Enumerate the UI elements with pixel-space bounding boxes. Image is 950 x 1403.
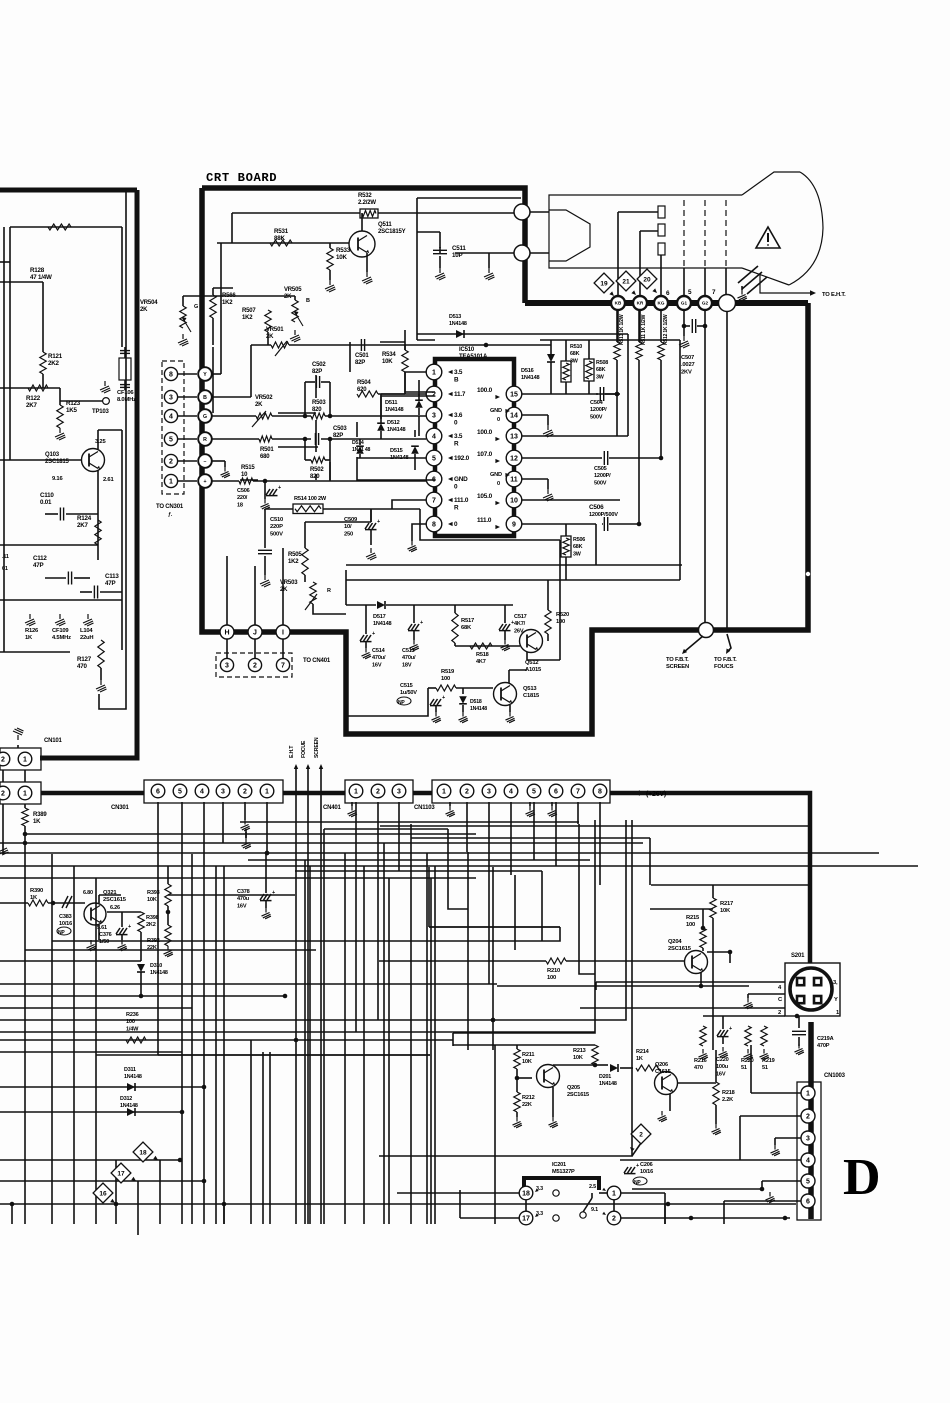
svg-text:Q205: Q205 (567, 1085, 580, 1091)
wire (0, 1031, 595, 1033)
wire (599, 802, 601, 885)
wire (304, 439, 306, 460)
svg-text:2K7: 2K7 (77, 522, 89, 529)
svg-text:D312: D312 (120, 1096, 132, 1102)
wire (0, 842, 643, 844)
tube pin G1 (677, 296, 691, 310)
node R (198, 432, 212, 446)
svg-text:7: 7 (432, 498, 436, 505)
svg-text:1/50: 1/50 (99, 939, 109, 945)
wire (348, 688, 428, 716)
ground (55, 614, 66, 626)
IC510 pin 15 (506, 386, 522, 402)
IC510 pin 14 (506, 407, 522, 423)
wire (525, 1200, 527, 1211)
transistor Q512 (520, 630, 543, 653)
ground (87, 940, 96, 951)
wire (295, 870, 542, 872)
svg-text:(+26V): (+26V) (646, 791, 666, 798)
resistor R390 (28, 900, 48, 906)
svg-text:R510: R510 (570, 344, 582, 350)
svg-text:2SC1815Y: 2SC1815Y (378, 229, 406, 235)
svg-text:10: 10 (510, 498, 518, 505)
svg-text:D310: D310 (150, 963, 162, 969)
wire (346, 604, 376, 606)
svg-text:1: 1 (169, 479, 173, 486)
wire (704, 326, 706, 627)
connector pin 1 (164, 474, 177, 487)
wire (579, 824, 595, 974)
wire (248, 859, 590, 861)
wire (616, 360, 618, 394)
svg-text:3: 3 (225, 663, 229, 670)
diode D518 (459, 696, 467, 704)
svg-text:R217: R217 (720, 901, 733, 907)
wire (73, 866, 75, 1224)
wire (555, 802, 557, 866)
svg-text:Q204: Q204 (668, 939, 682, 945)
wire (497, 985, 701, 987)
wire (168, 894, 295, 896)
svg-text:1200P/: 1200P/ (590, 407, 607, 413)
svg-text:10/16: 10/16 (59, 921, 72, 927)
capacitor C219A (798, 1016, 800, 1028)
transistor Q321 (84, 903, 106, 925)
power resistor R508 (584, 359, 594, 381)
svg-text:3W: 3W (596, 374, 605, 380)
wire (0, 599, 122, 601)
ground (432, 712, 441, 723)
capacitor C507 (683, 310, 685, 326)
svg-text:.0027: .0027 (681, 362, 695, 368)
svg-text:82P: 82P (312, 369, 322, 375)
ground (245, 829, 247, 838)
connector CN401 (345, 780, 413, 803)
wire thick (40, 756, 137, 761)
svg-text:2: 2 (465, 789, 469, 796)
wire (748, 993, 785, 995)
wire (98, 895, 100, 903)
resistor R513 (616, 310, 618, 342)
diode D514 (356, 446, 364, 454)
svg-text:3.6: 3.6 (454, 412, 463, 419)
connector CN101 row1 (0, 748, 41, 770)
resistor R507 (265, 310, 271, 332)
CN1003 pin 1 (801, 1086, 815, 1100)
E.H.T arrow (295, 766, 297, 1224)
ground (221, 467, 230, 478)
svg-text:88K: 88K (274, 235, 285, 242)
wire (639, 310, 641, 342)
svg-text:1N4148: 1N4148 (120, 1103, 138, 1109)
wire (702, 909, 704, 928)
IC510 pin 8 (426, 516, 442, 532)
svg-text:R210: R210 (547, 968, 560, 974)
wire (215, 866, 217, 1224)
wire (315, 440, 317, 452)
svg-text:R508: R508 (596, 360, 608, 366)
svg-text:Y: Y (203, 372, 207, 378)
ground (551, 802, 553, 806)
wire (613, 1200, 615, 1211)
IC201 pin 18 (519, 1186, 533, 1200)
IC510 pin 12 (506, 450, 522, 466)
svg-text:10/16: 10/16 (640, 1169, 653, 1175)
power resistor R510 (561, 361, 571, 382)
svg-text:TO CN401: TO CN401 (303, 658, 331, 664)
electron gun (549, 210, 590, 261)
wire (381, 396, 435, 419)
svg-text:C504: C504 (590, 400, 604, 406)
ground (766, 1192, 775, 1203)
transistor Q206 (655, 1072, 678, 1095)
wire (0, 1159, 180, 1161)
wire (356, 422, 358, 437)
capacitor C220 (717, 1030, 729, 1037)
wire (323, 829, 325, 1224)
CN1003 pin 4 (801, 1153, 815, 1167)
svg-text:11: 11 (510, 477, 518, 484)
svg-text:R514 100 2W: R514 100 2W (294, 496, 327, 502)
svg-text:2.5: 2.5 (589, 1184, 596, 1190)
svg-text:6: 6 (156, 789, 160, 796)
svg-text:2.61: 2.61 (103, 477, 114, 483)
wire (439, 232, 441, 248)
wire (522, 523, 596, 525)
IC510 pin 6 (426, 471, 442, 487)
CN1003 pin 5 (801, 1174, 815, 1188)
resistor R512 (660, 310, 662, 342)
resistor R128 (48, 224, 71, 230)
resistor R502 (311, 457, 325, 463)
IC510 pin 2 (426, 386, 442, 402)
connector CN101 row2 (0, 782, 41, 804)
wire (388, 878, 390, 1224)
wire (632, 1143, 641, 1156)
svg-text:D514: D514 (352, 440, 364, 446)
svg-text:6: 6 (554, 789, 558, 796)
ground (329, 270, 331, 280)
svg-text:10K: 10K (336, 254, 347, 261)
wire (420, 509, 560, 540)
wire (267, 332, 269, 345)
ground (744, 998, 753, 1009)
wire (361, 213, 363, 231)
svg-text:GND: GND (490, 408, 502, 414)
svg-text:C507: C507 (681, 355, 694, 361)
svg-text:C510: C510 (270, 517, 283, 523)
svg-text:1K2: 1K2 (242, 315, 253, 321)
ceramic filter CF106 (119, 358, 131, 380)
svg-text:C506: C506 (589, 504, 604, 511)
node tag 18 (133, 1142, 153, 1162)
wire (380, 825, 808, 827)
grid electrode 1 (658, 206, 665, 218)
svg-text:G2: G2 (702, 301, 709, 306)
svg-text:2: 2 (639, 1131, 643, 1138)
ground (459, 712, 468, 723)
resistor R389 (24, 804, 26, 808)
resistor R533 (329, 243, 331, 248)
wire (181, 802, 183, 1224)
svg-text:FOUCS: FOUCS (714, 664, 734, 670)
ground (501, 640, 510, 651)
svg-text:R533: R533 (336, 247, 351, 254)
svg-text:R211: R211 (522, 1052, 534, 1058)
svg-text:5: 5 (169, 437, 173, 444)
IC201 pin 2 (607, 1211, 621, 1225)
IC510 pin 11 (506, 471, 522, 487)
svg-text:5: 5 (532, 789, 536, 796)
thick bus (808, 1022, 814, 1219)
wire (522, 414, 548, 416)
border junction (514, 204, 530, 220)
svg-text:68K: 68K (570, 351, 580, 357)
svg-text:10/: 10/ (344, 524, 352, 530)
svg-text:10K: 10K (720, 908, 731, 914)
svg-text:15: 15 (510, 392, 518, 399)
wire (707, 951, 730, 953)
wire (453, 1044, 595, 1046)
wire (724, 1200, 801, 1202)
svg-text:R127: R127 (77, 656, 92, 663)
resistor R505 (302, 548, 308, 575)
svg-text:CN401: CN401 (323, 805, 342, 811)
svg-text:51: 51 (741, 1065, 747, 1071)
capacitor C383 (62, 896, 72, 908)
svg-text:R520: R520 (556, 612, 569, 618)
connector pin 5 (164, 432, 177, 445)
ground (771, 1145, 780, 1156)
svg-text:R214: R214 (636, 1049, 650, 1055)
connector pin 8 (164, 367, 177, 380)
node I (276, 625, 290, 639)
resistor R504 (357, 391, 378, 397)
IC510 pin 3 (426, 407, 442, 423)
svg-text:680: 680 (260, 454, 270, 460)
svg-text:R124: R124 (77, 515, 92, 522)
wire (329, 462, 331, 480)
wire (553, 1064, 595, 1066)
wire (52, 940, 330, 942)
svg-text:7: 7 (281, 663, 285, 670)
svg-text:1N4148: 1N4148 (373, 621, 391, 627)
ground (719, 1047, 728, 1058)
junction (265, 851, 270, 856)
svg-text:D516: D516 (521, 368, 534, 374)
svg-text:18: 18 (237, 502, 243, 508)
svg-text:1: 1 (432, 370, 436, 377)
wire (510, 802, 512, 875)
wire (381, 393, 426, 395)
wire (345, 570, 347, 605)
svg-text:M51327P: M51327P (552, 1169, 575, 1175)
IC510 pin 9 (506, 516, 522, 532)
IC510 pin 13 (506, 428, 522, 444)
svg-text:250: 250 (344, 531, 353, 537)
resistor R214 (636, 1065, 658, 1071)
svg-text:R513 1K 1/2W: R513 1K 1/2W (619, 314, 625, 345)
svg-text:16V: 16V (716, 1071, 726, 1077)
resistor R532 (360, 209, 378, 218)
svg-text:Q206: Q206 (655, 1062, 668, 1068)
wire (683, 268, 685, 296)
svg-text:1N4148: 1N4148 (449, 321, 467, 327)
resistor R217 (710, 898, 716, 918)
wire (251, 344, 271, 346)
border junction (514, 245, 530, 261)
wire (715, 1050, 717, 1082)
svg-text:R515: R515 (241, 465, 255, 471)
svg-text:L104: L104 (80, 628, 93, 634)
svg-text:CN101: CN101 (44, 738, 63, 744)
diode D516 (547, 354, 555, 362)
svg-text:Q511: Q511 (378, 222, 392, 228)
svg-text:D: D (843, 1149, 881, 1206)
wire (405, 372, 435, 392)
svg-text:105.0: 105.0 (477, 493, 493, 500)
svg-text:47 1/4W: 47 1/4W (30, 274, 52, 281)
resistor R219 (761, 1026, 767, 1046)
wire (700, 972, 702, 986)
svg-text:620: 620 (357, 387, 367, 393)
svg-text:0.01: 0.01 (40, 499, 52, 506)
wire (278, 446, 318, 448)
svg-text:500V: 500V (590, 414, 603, 420)
capacitor C513 (408, 624, 420, 631)
svg-text:R507: R507 (242, 308, 256, 314)
wire (3, 227, 5, 652)
svg-text:220P: 220P (270, 524, 283, 530)
wire (703, 1015, 785, 1017)
wire (530, 252, 549, 254)
svg-text:1K5: 1K5 (66, 407, 78, 414)
connector pin 4 (164, 409, 177, 422)
svg-text:C383: C383 (59, 914, 72, 920)
wire (167, 906, 169, 925)
svg-text:3W: 3W (573, 551, 582, 557)
resistor R566 (210, 295, 216, 318)
svg-text:5: 5 (178, 789, 182, 796)
svg-text:NP: NP (398, 700, 405, 706)
svg-text:1K: 1K (33, 819, 41, 825)
svg-text:470P: 470P (817, 1043, 830, 1049)
svg-text:1N4148: 1N4148 (387, 427, 405, 433)
svg-text:1: 1 (442, 789, 446, 796)
wire (0, 865, 918, 867)
wire (577, 802, 579, 824)
svg-text:1: 1 (23, 757, 27, 764)
svg-text:3,: 3, (833, 980, 838, 986)
connector pin 7 (276, 658, 289, 671)
svg-text:R392: R392 (147, 938, 160, 944)
ground (410, 640, 419, 651)
wire (266, 802, 268, 853)
wire (222, 802, 224, 843)
resistor R393 (165, 884, 171, 906)
wire (370, 509, 372, 522)
svg-text:+: + (278, 485, 281, 491)
ground (25, 614, 36, 626)
wire (212, 415, 256, 417)
wire (212, 288, 214, 295)
resistor R213 (592, 1045, 598, 1065)
wire (599, 1192, 607, 1194)
svg-text:18: 18 (139, 1149, 147, 1156)
svg-text:KG: KG (658, 301, 665, 306)
svg-text:+: + (272, 890, 275, 896)
wire (740, 1115, 801, 1117)
wire (96, 1054, 430, 1056)
node tag 2 (631, 1124, 651, 1144)
svg-text:R505: R505 (288, 552, 302, 558)
node J (248, 625, 262, 639)
svg-text:TO E.H.T.: TO E.H.T. (822, 292, 846, 298)
wire (547, 580, 549, 610)
wire (0, 960, 141, 962)
tube pin KG (654, 296, 668, 310)
wire thick bus (283, 791, 345, 796)
svg-text:+: + (203, 479, 206, 485)
test point TP103 (103, 398, 110, 405)
svg-text:+: + (372, 631, 375, 637)
wire (0, 1086, 204, 1088)
svg-text:82P: 82P (355, 360, 365, 366)
connector CN1103 (432, 780, 610, 803)
wire (0, 1180, 204, 1182)
svg-text:A1015: A1015 (525, 667, 542, 673)
ground (245, 832, 247, 838)
svg-text:21: 21 (622, 278, 630, 285)
svg-text:D513: D513 (449, 314, 461, 320)
wire (0, 1051, 182, 1053)
svg-text:KR: KR (637, 301, 644, 306)
svg-text:2: 2 (1, 791, 5, 798)
svg-text:R503: R503 (312, 400, 326, 406)
svg-text:C378: C378 (237, 889, 250, 895)
wire (24, 826, 26, 843)
node H (220, 625, 234, 639)
diode D511 (415, 400, 423, 408)
IC201 pin 17 (519, 1211, 533, 1225)
svg-text:1N4148: 1N4148 (385, 407, 403, 413)
wire (0, 852, 879, 854)
wire thick bus (413, 791, 432, 796)
svg-text:192.0: 192.0 (454, 455, 470, 462)
wire (417, 339, 435, 341)
ground (795, 1044, 804, 1055)
wire (621, 1192, 665, 1194)
svg-text:220/: 220/ (237, 495, 248, 501)
wire (191, 854, 193, 1224)
CN1003 pin 3 (801, 1131, 815, 1145)
wire (595, 524, 597, 565)
CRT board border (202, 188, 525, 303)
svg-text:R502: R502 (310, 467, 324, 473)
wire (414, 430, 416, 437)
ground (13, 728, 24, 740)
heater (738, 266, 758, 283)
transistor Q205 (537, 1065, 560, 1088)
svg-text:C113: C113 (105, 573, 119, 580)
connector pin 2 (164, 454, 177, 467)
wire (775, 1137, 801, 1139)
resistor R123 (57, 405, 63, 428)
svg-text:D518: D518 (470, 699, 482, 705)
junction on border (806, 572, 810, 576)
wire (140, 972, 142, 996)
wire (397, 1192, 519, 1194)
